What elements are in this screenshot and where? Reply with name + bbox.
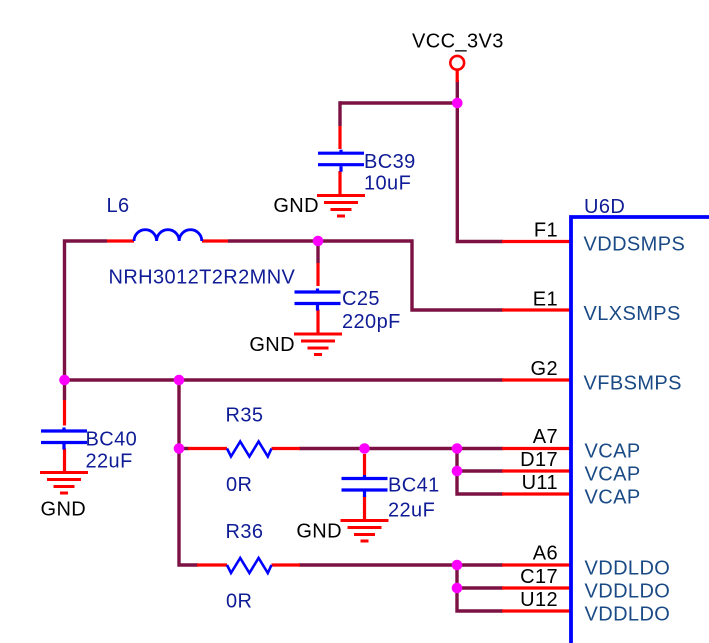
svg-text:VCAP: VCAP [585,487,641,509]
svg-text:C17: C17 [520,566,558,588]
svg-text:U12: U12 [520,589,558,611]
svg-text:BC41: BC41 [388,475,440,497]
svg-text:E1: E1 [533,289,558,311]
svg-text:VCAP: VCAP [585,441,641,463]
svg-text:GND: GND [41,499,87,521]
svg-text:10uF: 10uF [364,173,411,195]
svg-text:A6: A6 [533,543,558,565]
svg-text:U11: U11 [522,472,558,494]
svg-text:VCC_3V3: VCC_3V3 [412,31,504,53]
svg-text:U6D: U6D [584,196,625,218]
svg-text:BC39: BC39 [364,151,416,173]
svg-text:D17: D17 [520,449,558,471]
svg-text:0R: 0R [226,591,252,613]
svg-text:BC40: BC40 [86,429,138,451]
svg-text:VFBSMPS: VFBSMPS [584,373,682,395]
svg-text:C25: C25 [342,288,380,310]
svg-text:GND: GND [249,334,295,356]
svg-text:R36: R36 [226,521,264,543]
svg-text:220pF: 220pF [342,311,401,333]
svg-text:VDDLDO: VDDLDO [585,604,671,626]
svg-text:GND: GND [273,195,319,217]
svg-text:VLXSMPS: VLXSMPS [584,303,681,325]
svg-text:G2: G2 [531,358,558,380]
svg-text:R35: R35 [226,405,264,427]
svg-text:VDDLDO: VDDLDO [585,558,671,580]
svg-text:22uF: 22uF [86,451,133,473]
svg-text:VDDSMPS: VDDSMPS [584,234,686,256]
svg-text:VDDLDO: VDDLDO [585,581,671,603]
svg-text:A7: A7 [533,426,558,448]
svg-text:NRH3012T2R2MNV: NRH3012T2R2MNV [109,267,296,289]
svg-text:L6: L6 [107,195,130,217]
svg-text:22uF: 22uF [388,500,435,522]
svg-text:F1: F1 [534,220,558,242]
svg-text:GND: GND [296,521,342,543]
svg-text:VCAP: VCAP [585,464,641,486]
svg-text:0R: 0R [226,474,252,496]
